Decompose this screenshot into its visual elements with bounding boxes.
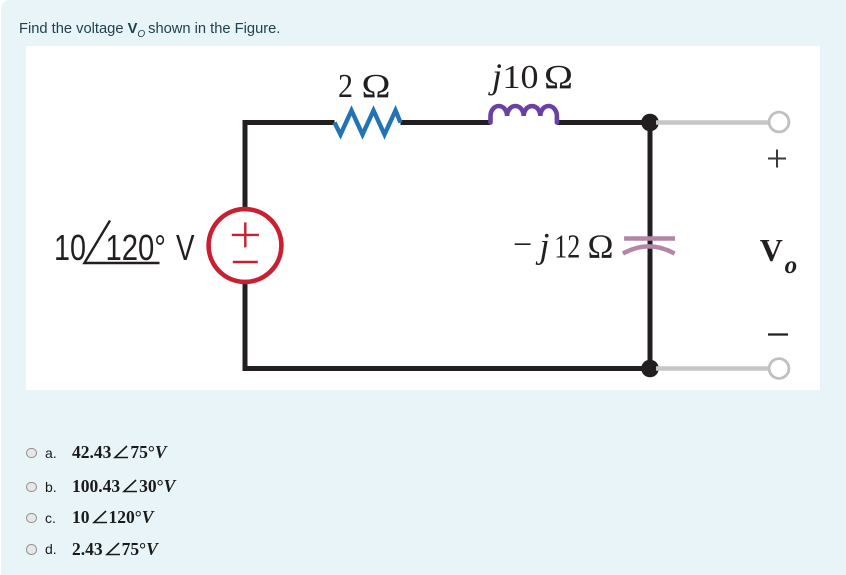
option d xyxy=(25,540,27,560)
gray wire to top terminal xyxy=(656,120,768,125)
wire right vertical xyxy=(648,123,653,369)
inductor j10ohm coil xyxy=(491,106,557,123)
junction node top xyxy=(641,114,659,132)
output minus sign xyxy=(768,333,788,335)
open terminal top xyxy=(769,112,789,132)
wire top horizontal xyxy=(245,120,651,125)
svg-text:o: o xyxy=(785,252,798,279)
capacitor top plate xyxy=(624,236,675,241)
svg-text:V: V xyxy=(760,232,783,268)
voltage source minus xyxy=(233,261,258,263)
gray wire to bottom terminal xyxy=(656,366,768,371)
resistor 2ohm zigzag xyxy=(335,111,401,135)
voltage source plus xyxy=(232,222,259,247)
svg-text:j10Ω: j10Ω xyxy=(488,56,573,96)
svg-text:2Ω: 2Ω xyxy=(338,68,391,105)
junction node bottom xyxy=(641,360,659,378)
open terminal bottom xyxy=(769,359,789,379)
capacitor bottom curved plate xyxy=(623,246,675,253)
svg-text:−j12Ω: −j12Ω xyxy=(513,225,614,265)
output plus sign xyxy=(768,150,786,168)
option c xyxy=(25,508,27,528)
option a xyxy=(25,443,27,463)
wire left vertical lower xyxy=(243,282,248,371)
source label angle symbol xyxy=(84,221,159,264)
option b xyxy=(25,477,27,497)
voltage source circle xyxy=(209,209,282,282)
wire bottom horizontal xyxy=(243,366,651,371)
wire left vertical upper xyxy=(243,120,248,209)
